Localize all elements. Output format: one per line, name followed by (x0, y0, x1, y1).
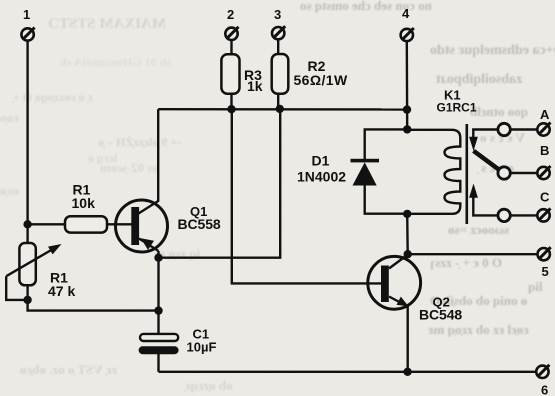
relay contact C wire left (473, 197, 498, 216)
relay K1 coil (407, 87, 477, 214)
svg-text:BC558: BC558 (178, 216, 221, 232)
terminal 1 (21, 7, 34, 41)
wire contact C to terminal C (510, 214, 537, 216)
wire relay top to D1 (365, 129, 408, 159)
svg-text:1: 1 (23, 7, 30, 22)
svg-text:3: 3 (274, 7, 281, 22)
relay contact B circle (498, 167, 510, 179)
terminal 4 (401, 6, 414, 41)
transistor Q1 BC558 (116, 200, 221, 258)
wire node A2 to C1 node (28, 300, 159, 311)
bleed-through texts (decorative) (300, 0, 432, 14)
resistor R2 56ohm 1W (272, 54, 348, 94)
svg-text:6: 6 (541, 382, 548, 396)
node Q2-collector junction (404, 250, 412, 258)
svg-text:A: A (540, 107, 550, 122)
terminal 6 (536, 365, 549, 396)
node rail-T4 junction (403, 105, 411, 113)
wire terminal4 down to relay (406, 41, 409, 129)
node relay-bottom junction (403, 210, 411, 218)
relay contact A circle (498, 123, 510, 135)
potentiometer R1 47k (6, 243, 75, 299)
node C1-top junction (154, 306, 162, 314)
relay contact C arrow (469, 184, 478, 198)
wire relay bottom to Q2 collector (406, 214, 409, 254)
wire contact A to terminal A (510, 128, 537, 130)
wire Q2 emitter to ground rail (407, 305, 409, 372)
wire Q1 emitter to R2 bottom (159, 109, 281, 258)
wire Q1 emitter down (157, 258, 159, 311)
terminal 5 (538, 247, 551, 279)
wire terminal3 to R2 (277, 40, 279, 54)
node A2 junction (23, 296, 31, 304)
transistor Q2 BC548 (368, 255, 463, 323)
relay K1 core (465, 124, 468, 224)
svg-text:D1: D1 (312, 153, 330, 169)
capacitor C1 10uF (139, 327, 217, 355)
node R2-rail junction (276, 105, 284, 113)
terminal C (537, 189, 550, 221)
relay contact C circle (498, 209, 510, 221)
terminal 2 (225, 7, 238, 40)
node ground-rail junction (403, 368, 411, 376)
diode D1 1N4002 (297, 153, 379, 186)
svg-text:B: B (540, 143, 549, 158)
wire rail to Q1 collector (139, 109, 159, 213)
svg-text:10µF: 10µF (187, 340, 217, 355)
svg-text:47 k: 47 k (48, 283, 75, 299)
wire C1 bottom lead (157, 354, 159, 372)
node R3-rail junction (227, 105, 235, 113)
relay contact A wire left (473, 130, 498, 139)
wire terminal2 to R3 (230, 40, 232, 54)
node relay-top junction (403, 125, 411, 133)
wire node A1 to R1 (28, 223, 65, 225)
resistor R1 10k (65, 182, 107, 233)
terminal 3 (272, 7, 285, 39)
svg-text:5: 5 (542, 264, 549, 279)
relay arm to contact B (474, 151, 501, 171)
svg-text:1k: 1k (247, 78, 263, 94)
svg-text:4: 4 (402, 6, 410, 21)
wire D1 to relay bottom (365, 186, 408, 214)
node Q1-emitter junction (154, 254, 162, 262)
wire R3 bottom to Q2 base (232, 109, 381, 283)
svg-text:2: 2 (227, 7, 234, 22)
svg-text:10k: 10k (72, 195, 96, 211)
svg-text:56Ω/1W: 56Ω/1W (294, 72, 348, 88)
terminal B (537, 143, 550, 179)
resistor R3 1k (221, 54, 262, 94)
wire node to terminal 5 (408, 253, 538, 255)
wire supply rail (158, 108, 407, 111)
wire R3 to rail (230, 94, 232, 109)
wire R1 to Q1 base (107, 223, 132, 225)
wire ground rail (159, 371, 537, 373)
svg-text:1N4002: 1N4002 (297, 169, 346, 185)
svg-text:BC548: BC548 (419, 307, 462, 323)
wire pot wiper return (6, 276, 27, 300)
svg-text:C: C (540, 189, 550, 204)
relay contact A arrow (469, 137, 478, 151)
wire pot bottom to node A2 (26, 285, 28, 300)
wire R2 to rail (277, 94, 279, 109)
wire C1 top lead (157, 311, 159, 334)
terminal A (537, 107, 550, 136)
svg-text:G1RC1: G1RC1 (437, 101, 477, 115)
wire contact B to terminal B (510, 172, 537, 174)
node A1 junction (23, 220, 31, 228)
wire node A1 down to potentiometer (26, 224, 28, 243)
wire terminal1 to node A1 (26, 41, 28, 225)
